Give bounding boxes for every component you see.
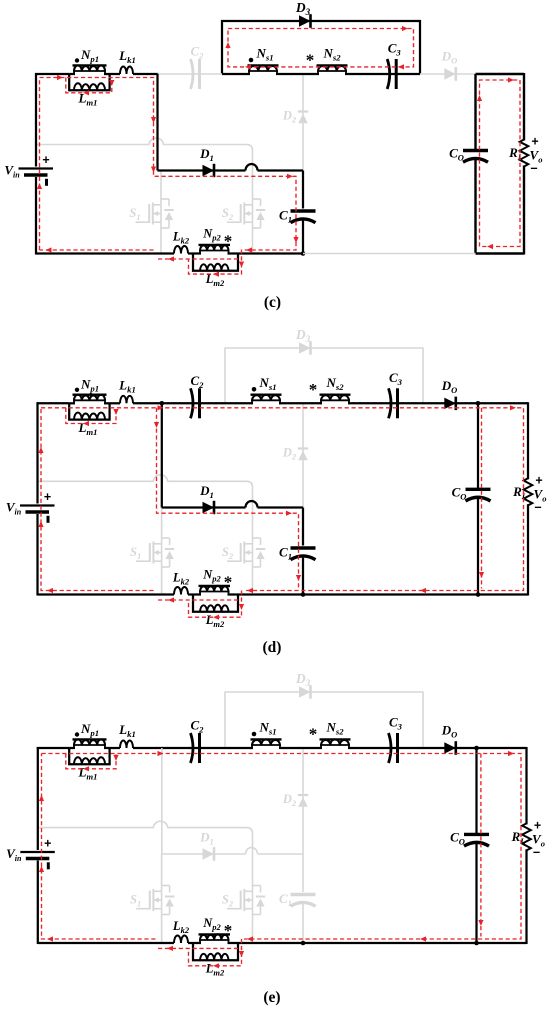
svg-text:(c): (c): [264, 294, 281, 311]
svg-text:−: −: [534, 500, 541, 514]
svg-text:*: *: [309, 725, 318, 744]
svg-text:+: +: [534, 818, 541, 832]
svg-text:+: +: [531, 135, 538, 149]
svg-text:−: −: [533, 845, 540, 859]
svg-text:+: +: [44, 837, 51, 851]
svg-text:+: +: [42, 153, 49, 167]
svg-text:−: −: [530, 162, 537, 176]
svg-text:*: *: [224, 573, 233, 592]
svg-text:*: *: [309, 380, 318, 399]
svg-text:+: +: [44, 490, 51, 504]
svg-text:*: *: [224, 232, 233, 251]
svg-text:+: +: [535, 473, 542, 487]
svg-text:(d): (d): [263, 639, 282, 656]
svg-text:(e): (e): [263, 989, 280, 1006]
svg-text:*: *: [224, 921, 233, 940]
